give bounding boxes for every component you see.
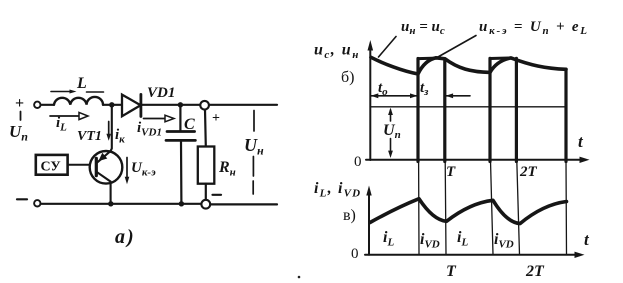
pulse edge 2a xyxy=(488,58,491,161)
svg-text:0: 0 xyxy=(351,246,359,262)
output + terminal xyxy=(200,101,209,110)
pulse edge 1b xyxy=(443,59,446,162)
period line 5 xyxy=(565,161,568,255)
svg-text:uн = uc: uн = uc xyxy=(401,19,445,37)
waveform uc/uн xyxy=(371,57,566,74)
svg-text:в): в) xyxy=(343,207,356,224)
arrow iVD1 xyxy=(144,118,166,120)
axis i (в) xyxy=(368,191,370,255)
control unit СУ xyxy=(36,155,68,175)
svg-text:iVD1: iVD1 xyxy=(137,120,162,139)
resistor Rн xyxy=(198,147,215,184)
period line 1 xyxy=(418,161,420,255)
svg-text:+: + xyxy=(15,95,24,112)
period line 4 xyxy=(517,161,520,255)
svg-text:T: T xyxy=(446,263,457,280)
pulse edge 1a xyxy=(416,59,419,162)
svg-text:t: t xyxy=(584,230,590,249)
arrow Uп xyxy=(390,110,392,121)
svg-text:2T: 2T xyxy=(525,263,545,280)
axis u (б) xyxy=(369,45,371,160)
svg-text:iL, iVD: iL, iVD xyxy=(314,180,361,200)
wire base xyxy=(68,164,90,166)
input − terminal xyxy=(17,198,27,200)
pulse edge 2b xyxy=(515,58,518,161)
svg-text:2T: 2T xyxy=(519,164,538,180)
axis t (в) xyxy=(365,254,577,256)
dimension t0 xyxy=(371,95,418,97)
svg-text:iL: iL xyxy=(383,229,394,249)
svg-text:Rн: Rн xyxy=(218,159,236,179)
arrow iк xyxy=(108,122,110,136)
wire resistor to − terminal xyxy=(205,184,207,200)
axis t (б) xyxy=(366,159,582,161)
svg-text:б): б) xyxy=(341,69,354,86)
label Uп xyxy=(20,112,22,121)
svg-text:Uк-э: Uк-э xyxy=(131,160,156,179)
arrow Uк-э xyxy=(126,158,128,179)
pulse top 1 xyxy=(418,57,437,61)
leader uн=uc xyxy=(379,37,397,58)
inductor L xyxy=(54,97,103,105)
svg-text:Uп: Uп xyxy=(383,122,401,141)
svg-text:uк-э = Uп + eL: uк-э = Uп + eL xyxy=(479,19,589,37)
bottom rail xyxy=(41,203,202,205)
period line 2 xyxy=(444,161,447,255)
svg-text:VT1: VT1 xyxy=(77,129,102,144)
svg-text:iVD: iVD xyxy=(420,231,440,251)
pulse top 2 xyxy=(490,57,511,61)
node L/VD1/VT1 xyxy=(109,102,114,107)
wire top rail right xyxy=(141,104,277,106)
leader uк-э xyxy=(434,36,477,60)
svg-text:Uп: Uп xyxy=(9,122,28,144)
svg-text:0: 0 xyxy=(354,154,362,170)
svg-text:tо: tо xyxy=(378,80,388,98)
waveform iL/iVD xyxy=(370,199,567,224)
Uн marker top xyxy=(253,111,255,132)
svg-text:Uн: Uн xyxy=(244,135,264,158)
svg-text:C: C xyxy=(184,116,195,133)
capacitor C xyxy=(179,105,181,130)
line Uп level xyxy=(370,106,566,108)
dimension t3 xyxy=(446,95,470,97)
svg-text:t: t xyxy=(578,132,584,151)
wire node to diode xyxy=(103,104,122,106)
svg-text:СУ: СУ xyxy=(41,160,61,175)
transistor VT1 xyxy=(90,151,123,184)
output − terminal xyxy=(213,194,222,196)
node emitter xyxy=(108,201,113,206)
arrow iL xyxy=(50,115,79,117)
scan speck xyxy=(298,276,301,279)
Uн marker bottom xyxy=(252,157,254,177)
wire top rail left xyxy=(41,104,55,106)
svg-text:L: L xyxy=(76,75,87,92)
svg-text:iк: iк xyxy=(115,127,125,146)
wire to resistor xyxy=(204,110,207,147)
pulse edge end xyxy=(564,69,567,161)
svg-text:а): а) xyxy=(115,226,136,248)
svg-text:uc, uн: uc, uн xyxy=(314,42,360,62)
svg-text:iVD: iVD xyxy=(494,231,514,251)
diode VD1 xyxy=(122,95,141,117)
period line 3 xyxy=(491,161,494,255)
node capacitor top xyxy=(178,102,183,107)
svg-text:VD1: VD1 xyxy=(147,85,175,101)
svg-text:iL: iL xyxy=(457,229,468,249)
svg-text:+: + xyxy=(212,111,220,126)
svg-text:iL: iL xyxy=(56,115,67,134)
node capacitor bottom xyxy=(179,201,184,206)
svg-text:T: T xyxy=(446,164,456,180)
svg-text:tз: tз xyxy=(420,80,429,98)
